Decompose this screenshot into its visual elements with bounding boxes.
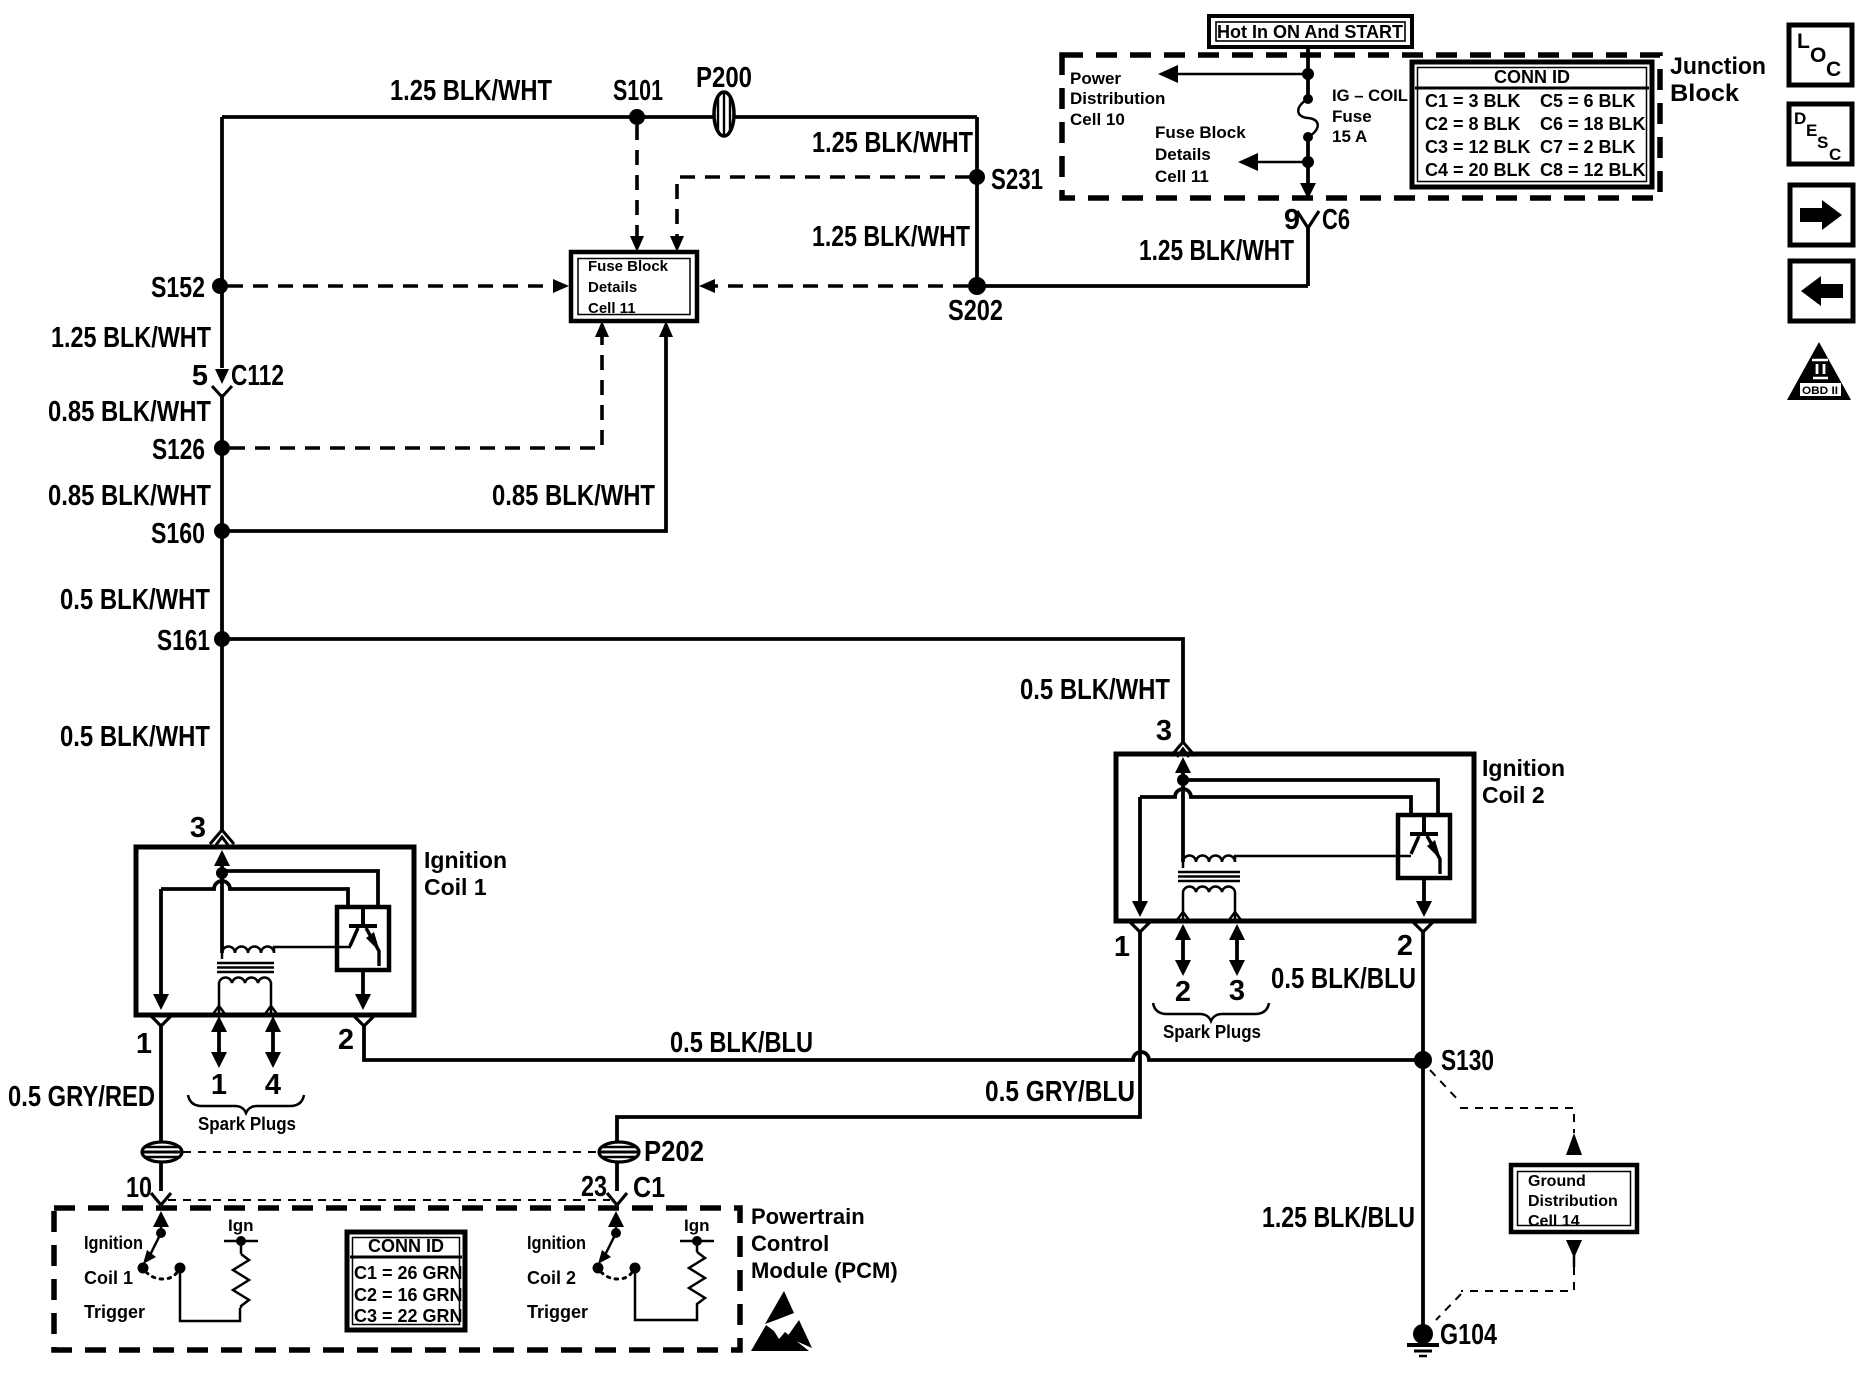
- svg-text:Cell 11: Cell 11: [1155, 167, 1209, 186]
- svg-text:Spark Plugs: Spark Plugs: [198, 1114, 296, 1134]
- connector P200: [696, 62, 752, 136]
- svg-text:0.5 BLK/WHT: 0.5 BLK/WHT: [60, 721, 210, 753]
- icon: DESC box: [1789, 104, 1852, 164]
- svg-text:Ignition: Ignition: [424, 847, 507, 873]
- wire: 1.25 BLK/WHT top bus: [222, 115, 977, 119]
- svg-text:5: 5: [192, 360, 208, 392]
- fuse IG-COIL 15A: [1298, 94, 1318, 186]
- svg-text:Ground: Ground: [1528, 1173, 1586, 1190]
- arrow: exits junction block bottom: [1300, 183, 1316, 199]
- svg-text:Block: Block: [1670, 80, 1740, 107]
- svg-text:Details: Details: [588, 279, 637, 296]
- wire: from S160 right then up to Fuse Block Details: [222, 321, 673, 531]
- wire: thin dashed between pins 10 and 23: [168, 1199, 610, 1201]
- switch: ignition coil 1 trigger: [138, 1233, 241, 1321]
- wire: dashed from S101 down to Fuse Block Details: [630, 125, 644, 252]
- svg-text:C2 = 16 GRN: C2 = 16 GRN: [354, 1285, 463, 1305]
- switch: ignition coil 2 trigger: [593, 1233, 698, 1320]
- svg-text:C5 = 6 BLK: C5 = 6 BLK: [1540, 91, 1636, 111]
- svg-text:L: L: [1797, 30, 1810, 53]
- ground G104: [1407, 1319, 1497, 1356]
- wire: dashed from S202 left to Fuse Block Details (arrow left): [699, 279, 968, 293]
- svg-text:E: E: [1806, 121, 1817, 140]
- wire: left rail lower (C112 to coil 1): [220, 394, 224, 830]
- svg-text:0.85 BLK/WHT: 0.85 BLK/WHT: [492, 480, 655, 512]
- svg-text:C7 = 2 BLK: C7 = 2 BLK: [1540, 137, 1636, 157]
- wire: dashed between P202 halves: [183, 1151, 598, 1153]
- spark plug arrows (coil 1): [188, 1016, 304, 1134]
- wire: C6 down and left to S202: [977, 284, 1308, 288]
- svg-text:C: C: [1826, 58, 1841, 81]
- svg-text:2: 2: [1397, 930, 1413, 962]
- wire: 0.5 BLK/BLU from coil 1 pin 2 to S130 (hop at coil 2 pin 1): [364, 1026, 1423, 1060]
- svg-text:Hot In ON And START: Hot In ON And START: [1217, 22, 1403, 42]
- wire: from Hot box down into junction block: [1306, 47, 1310, 97]
- node S101: [629, 109, 645, 125]
- svg-text:0.5 BLK/WHT: 0.5 BLK/WHT: [1020, 674, 1170, 706]
- svg-text:CONN ID: CONN ID: [368, 1236, 444, 1256]
- box: Ground Distribution Cell 14: [1511, 1165, 1637, 1232]
- transistor (coil 1 ignitor): [337, 907, 389, 1010]
- svg-text:S152: S152: [151, 272, 205, 304]
- wire: S130 down to G104: [1421, 1060, 1425, 1330]
- svg-text:23: 23: [581, 1171, 607, 1203]
- box: Fuse Block Details Cell 11: [571, 252, 697, 321]
- svg-text:2: 2: [338, 1024, 354, 1056]
- connector: coil 1 pin 1: [136, 1015, 172, 1143]
- resistor (Ign pull-up, coil 1): [224, 1216, 258, 1308]
- wire: dashed from S152 right to Fuse Block Details (arrow right): [228, 279, 569, 293]
- svg-text:0.85 BLK/WHT: 0.85 BLK/WHT: [48, 480, 211, 512]
- svg-text:S161: S161: [157, 625, 210, 657]
- wire: left rail upper (bus to C112): [220, 117, 224, 368]
- svg-text:Power: Power: [1070, 69, 1121, 88]
- svg-text:Ignition: Ignition: [527, 1233, 586, 1253]
- wire: dashed from S126 right then up to Fuse Block Details: [230, 321, 609, 448]
- node S160: [214, 523, 230, 539]
- node S126: [214, 440, 230, 456]
- svg-text:S: S: [1817, 133, 1828, 152]
- wire: dashed S130 to Ground Distribution: [1430, 1070, 1582, 1155]
- table: CONN ID (junction block): [1412, 62, 1652, 187]
- icon: right arrow box: [1790, 185, 1853, 245]
- junction block dashed border: [1062, 55, 1660, 198]
- svg-text:C3 = 12 BLK: C3 = 12 BLK: [1425, 137, 1531, 157]
- svg-text:CONN ID: CONN ID: [1494, 67, 1570, 87]
- resistor (Ign pull-up, coil 2): [680, 1216, 714, 1306]
- svg-text:C1 = 26 GRN: C1 = 26 GRN: [354, 1263, 463, 1283]
- PCM entry arrow (coil 1 trigger, pin 10): [153, 1211, 169, 1238]
- svg-text:S130: S130: [1441, 1045, 1494, 1077]
- svg-text:3: 3: [190, 812, 206, 844]
- svg-text:C3 = 22 GRN: C3 = 22 GRN: [354, 1306, 463, 1326]
- wire: pin 23 C1 drop into PCM: [581, 1162, 665, 1205]
- svg-text:C8 = 12 BLK: C8 = 12 BLK: [1540, 160, 1646, 180]
- svg-text:Powertrain: Powertrain: [751, 1204, 865, 1229]
- svg-text:0.5 GRY/RED: 0.5 GRY/RED: [8, 1081, 155, 1113]
- svg-text:0.5 BLK/WHT: 0.5 BLK/WHT: [60, 584, 210, 616]
- icon: left arrow box: [1790, 261, 1853, 321]
- svg-text:IG – COIL: IG – COIL: [1332, 86, 1408, 105]
- svg-text:Cell 10: Cell 10: [1070, 110, 1125, 129]
- svg-text:0.5 GRY/BLU: 0.5 GRY/BLU: [985, 1076, 1135, 1108]
- svg-text:Distribution: Distribution: [1528, 1193, 1618, 1210]
- svg-text:S126: S126: [152, 434, 205, 466]
- connector: coil 1 pin 2: [338, 1015, 375, 1056]
- svg-text:0.5 BLK/BLU: 0.5 BLK/BLU: [670, 1027, 813, 1059]
- svg-text:3: 3: [1229, 975, 1245, 1007]
- node: fuse feed junction: [1302, 68, 1314, 80]
- svg-text:1.25 BLK/BLU: 1.25 BLK/BLU: [1262, 1202, 1415, 1234]
- svg-text:9: 9: [1284, 204, 1300, 236]
- svg-text:1.25 BLK/WHT: 1.25 BLK/WHT: [390, 75, 552, 107]
- icon: LOC box: [1789, 25, 1852, 85]
- svg-text:C6: C6: [1322, 204, 1350, 236]
- svg-text:S101: S101: [613, 75, 663, 107]
- svg-text:Trigger: Trigger: [84, 1302, 145, 1322]
- ignition coil 2 box: [1116, 754, 1474, 921]
- node S152: [212, 278, 228, 294]
- svg-text:C112: C112: [231, 360, 284, 392]
- svg-text:Trigger: Trigger: [527, 1302, 588, 1322]
- svg-text:2: 2: [1175, 976, 1191, 1008]
- label: Ignition Coil 2 Trigger: [527, 1233, 588, 1322]
- svg-text:OBD II: OBD II: [1802, 385, 1838, 397]
- spark plug arrows (coil 2): [1153, 924, 1269, 1042]
- wire: arrow to Fuse Block Details Cell 11: [1238, 153, 1305, 171]
- node S161: [214, 631, 230, 647]
- svg-text:1.25 BLK/WHT: 1.25 BLK/WHT: [1139, 235, 1294, 267]
- svg-text:Distribution: Distribution: [1070, 89, 1165, 108]
- svg-text:1: 1: [211, 1069, 227, 1101]
- node S130: [1414, 1051, 1432, 1069]
- icon: ESD symbol: [751, 1291, 812, 1351]
- svg-text:C: C: [1829, 145, 1841, 164]
- svg-text:Coil 2: Coil 2: [1482, 782, 1545, 808]
- svg-text:Fuse Block: Fuse Block: [1155, 123, 1246, 142]
- coil 2 internals: [1132, 757, 1438, 920]
- svg-text:1.25 BLK/WHT: 1.25 BLK/WHT: [812, 221, 970, 253]
- wire: dashed Ground Distribution to G104: [1436, 1240, 1582, 1320]
- ignition coil 1 box: [136, 847, 414, 1015]
- svg-text:1: 1: [1114, 931, 1130, 963]
- connector 5 C112: [192, 360, 284, 397]
- svg-text:Coil 1: Coil 1: [84, 1268, 133, 1288]
- wire: right vertical from bus down to S202: [975, 117, 979, 286]
- connector: coil 2 pin 1: [1114, 921, 1151, 963]
- wire: coil 2 pin 1 down, left to P202 drop: [617, 932, 1140, 1143]
- svg-text:C6 = 18 BLK: C6 = 18 BLK: [1540, 114, 1646, 134]
- svg-text:C1: C1: [633, 1172, 665, 1204]
- table: CONN ID (PCM): [347, 1232, 465, 1330]
- svg-text:S160: S160: [151, 518, 205, 550]
- svg-text:Junction: Junction: [1670, 53, 1766, 80]
- connector: in-line P202 (coil 2 side): [599, 1136, 704, 1168]
- connector: coil 2 pin 2: [1397, 921, 1434, 1060]
- wire: from S161 right to ignition coil 2: [222, 639, 1183, 742]
- wire: arrow to Power Distribution Cell 10: [1158, 65, 1305, 83]
- svg-text:S202: S202: [948, 295, 1003, 327]
- svg-text:Ign: Ign: [684, 1216, 710, 1235]
- svg-text:Fuse: Fuse: [1332, 107, 1372, 126]
- svg-text:Cell 14: Cell 14: [1528, 1213, 1580, 1230]
- svg-text:Control: Control: [751, 1231, 829, 1256]
- svg-text:C4 = 20 BLK: C4 = 20 BLK: [1425, 160, 1531, 180]
- svg-text:P200: P200: [696, 62, 752, 94]
- svg-text:C1 = 3 BLK: C1 = 3 BLK: [1425, 91, 1521, 111]
- svg-text:Details: Details: [1155, 145, 1211, 164]
- connector 9 C6: [1284, 204, 1350, 286]
- node S202: [968, 277, 986, 295]
- PCM dashed box: [54, 1208, 740, 1350]
- svg-text:G104: G104: [1440, 1319, 1497, 1351]
- svg-text:10: 10: [126, 1172, 152, 1204]
- svg-text:O: O: [1810, 44, 1826, 67]
- svg-text:Cell 11: Cell 11: [588, 300, 636, 317]
- svg-text:Coil 2: Coil 2: [527, 1268, 576, 1288]
- svg-text:Coil 1: Coil 1: [424, 874, 487, 900]
- svg-text:C2 = 8 BLK: C2 = 8 BLK: [1425, 114, 1521, 134]
- svg-text:4: 4: [265, 1069, 281, 1101]
- svg-text:Module (PCM): Module (PCM): [751, 1258, 898, 1283]
- svg-text:3: 3: [1156, 715, 1172, 747]
- svg-text:Ign: Ign: [228, 1216, 254, 1235]
- connector: coil 2 pin 3: [1156, 715, 1195, 757]
- connector: in-line (coil 1 side of P202): [142, 1142, 182, 1162]
- svg-text:1: 1: [136, 1028, 152, 1060]
- connector: coil 1 pin 3: [190, 812, 234, 845]
- svg-text:0.5 BLK/BLU: 0.5 BLK/BLU: [1271, 963, 1416, 995]
- wire: dashed from S231 left then down to Fuse Block Details: [670, 177, 970, 252]
- transistor (coil 2 ignitor): [1398, 815, 1450, 917]
- svg-text:1.25 BLK/WHT: 1.25 BLK/WHT: [51, 322, 211, 354]
- svg-text:Ignition: Ignition: [84, 1233, 143, 1253]
- svg-text:D: D: [1794, 109, 1806, 128]
- svg-text:S231: S231: [991, 164, 1043, 196]
- svg-text:Spark Plugs: Spark Plugs: [1163, 1022, 1261, 1042]
- svg-text:Fuse Block: Fuse Block: [588, 258, 669, 275]
- coil 1 internals: [153, 850, 378, 1014]
- svg-text:1.25 BLK/WHT: 1.25 BLK/WHT: [812, 127, 973, 159]
- svg-text:15 A: 15 A: [1332, 127, 1367, 146]
- label: Ignition Coil 1 Trigger: [84, 1233, 145, 1322]
- icon: OBD II triangle: [1787, 342, 1851, 400]
- svg-text:Ignition: Ignition: [1482, 755, 1565, 781]
- node S231: [969, 169, 985, 185]
- svg-text:P202: P202: [644, 1136, 704, 1168]
- svg-text:0.85 BLK/WHT: 0.85 BLK/WHT: [48, 396, 211, 428]
- box: Hot In ON And START: [1209, 16, 1412, 47]
- node: lower junction: [1302, 156, 1314, 168]
- PCM entry arrow (coil 2 trigger, pin 23): [608, 1211, 624, 1238]
- wire: pin 10 drop into PCM: [126, 1162, 171, 1205]
